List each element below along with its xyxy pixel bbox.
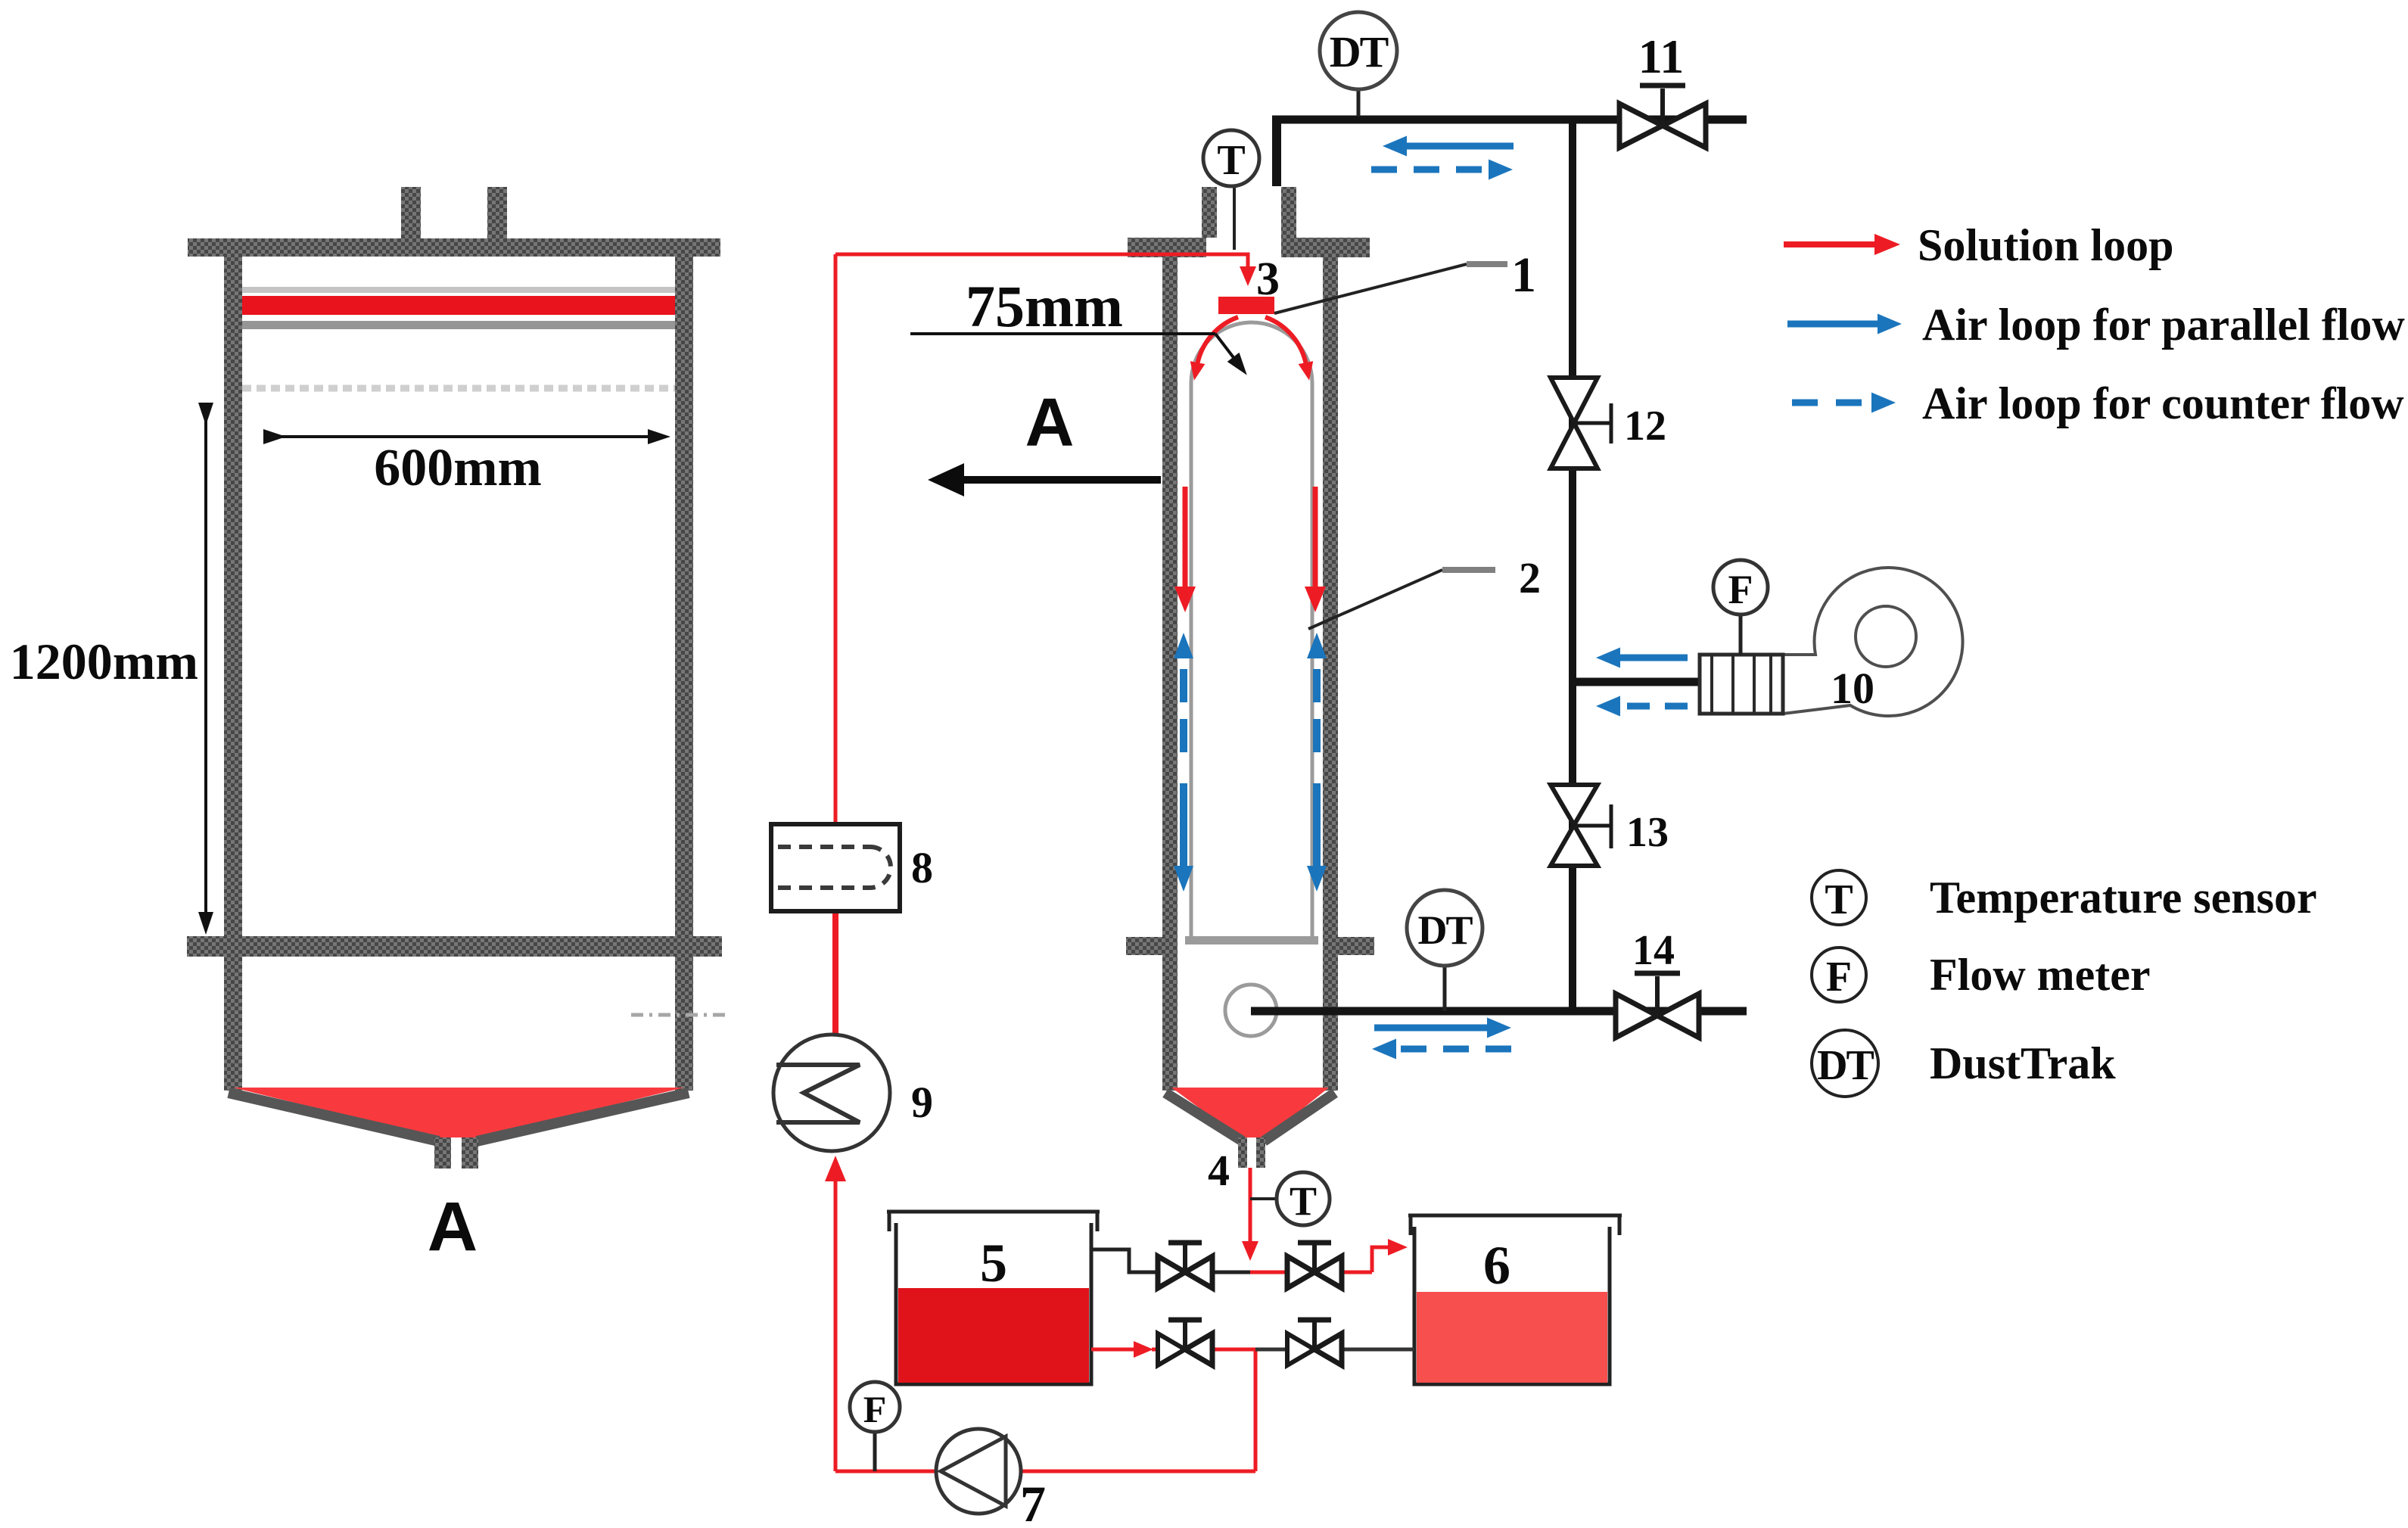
svg-text:14: 14 bbox=[1632, 927, 1675, 974]
svg-text:4: 4 bbox=[1208, 1146, 1230, 1195]
svg-text:DustTrak: DustTrak bbox=[1930, 1038, 2116, 1088]
svg-text:F: F bbox=[1728, 567, 1753, 612]
svg-text:9: 9 bbox=[911, 1078, 933, 1127]
svg-text:T: T bbox=[1217, 137, 1245, 184]
svg-text:8: 8 bbox=[911, 843, 933, 892]
svg-text:Flow meter: Flow meter bbox=[1930, 950, 2151, 1000]
svg-text:Air loop for counter flow: Air loop for counter flow bbox=[1922, 378, 2404, 428]
svg-text:T: T bbox=[1825, 876, 1853, 923]
svg-text:600mm: 600mm bbox=[374, 439, 542, 497]
svg-text:1200mm: 1200mm bbox=[10, 633, 198, 690]
svg-text:75mm: 75mm bbox=[966, 273, 1123, 339]
svg-text:11: 11 bbox=[1638, 30, 1684, 83]
svg-text:DT: DT bbox=[1417, 907, 1473, 953]
svg-text:A: A bbox=[428, 1188, 478, 1265]
svg-text:2: 2 bbox=[1519, 553, 1541, 602]
svg-text:13: 13 bbox=[1626, 809, 1669, 856]
svg-text:Solution loop: Solution loop bbox=[1918, 220, 2173, 270]
svg-text:F: F bbox=[1826, 954, 1852, 1001]
svg-text:12: 12 bbox=[1624, 403, 1666, 450]
svg-text:6: 6 bbox=[1483, 1235, 1510, 1296]
svg-text:1: 1 bbox=[1511, 247, 1536, 303]
svg-text:DT: DT bbox=[1330, 27, 1389, 76]
svg-text:T: T bbox=[1290, 1178, 1317, 1224]
svg-text:A: A bbox=[1025, 385, 1075, 461]
svg-text:Temperature sensor: Temperature sensor bbox=[1930, 873, 2317, 923]
svg-text:F: F bbox=[863, 1388, 887, 1430]
svg-text:10: 10 bbox=[1831, 664, 1874, 713]
svg-text:Air loop for parallel flow: Air loop for parallel flow bbox=[1922, 300, 2405, 350]
svg-text:7: 7 bbox=[1020, 1475, 1046, 1528]
svg-text:5: 5 bbox=[980, 1233, 1007, 1293]
svg-text:3: 3 bbox=[1256, 254, 1280, 305]
svg-text:DT: DT bbox=[1817, 1042, 1874, 1089]
